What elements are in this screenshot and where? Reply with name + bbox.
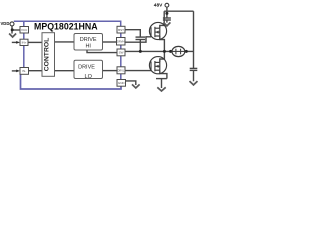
svg-text:LO: LO [85, 74, 93, 80]
svg-text:CONTROL: CONTROL [44, 38, 51, 72]
svg-text:SW: SW [119, 51, 124, 55]
svg-text:BST: BST [118, 28, 124, 32]
svg-text:VCC: VCC [21, 28, 28, 32]
svg-text:MPQ18021HNA: MPQ18021HNA [34, 21, 98, 31]
svg-text:HI: HI [85, 44, 91, 50]
svg-text:48V: 48V [154, 3, 163, 9]
svg-text:DRIVE: DRIVE [78, 65, 95, 71]
svg-text:VDD: VDD [1, 21, 10, 26]
svg-text:GND: GND [118, 81, 126, 85]
svg-text:DRVL: DRVL [118, 68, 125, 72]
svg-text:IN+: IN+ [22, 41, 27, 45]
svg-text:IN-: IN- [22, 69, 26, 73]
svg-text:DRIVE: DRIVE [80, 37, 97, 43]
svg-text:DRVH: DRVH [117, 39, 124, 43]
